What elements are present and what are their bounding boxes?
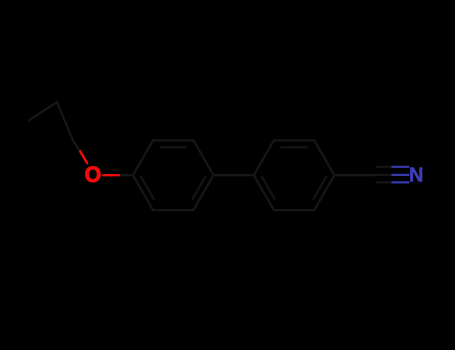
ring 1 inner double bond C2-C3 [161,146,187,148]
nitrile triple bond top line black half [377,166,393,168]
ring 2 inner double bond C2'-C3' [281,146,307,148]
ring 2 benzene edge C6'-C1' [254,175,274,210]
nitrile triple bond top line blue half [392,166,408,168]
ring 2 benzene edge C1'-C2' [254,140,274,175]
ring 2 inner double bond C6'-C1' [262,177,275,199]
ring 1 benzene edge C1-C2 [133,140,153,175]
ring 2 benzene edge C4'-C5' [314,175,334,210]
nitrile triple bond bottom line black half [377,181,393,183]
ring 2 benzene edge C2'-C3' [274,139,314,141]
ring 1 inner double bond C6-C1 [141,177,154,199]
ring 1 benzene edge C3-C4 [193,140,213,175]
svg-text:O: O [85,162,102,188]
nitrile triple bond middle line blue half [392,174,408,176]
ring 1 benzene edge C6-C1 [133,175,153,210]
ring 1 benzene edge C2-C3 [153,139,193,141]
ring 1 inner double bond C4-C5 [193,177,206,199]
nitrile triple bond bottom line blue half [392,181,408,183]
bond CH2-CH2 (alkyl) [57,102,73,140]
bond O-C1 black half [119,174,133,176]
svg-text:N: N [409,164,423,186]
ring 2 benzene edge C5'-C6' [274,209,314,211]
ring 1 benzene edge C5-C6 [153,209,193,211]
ring 1 benzene edge C4-C5 [193,175,213,210]
biphenyl bond C4-C1' [214,174,254,176]
nitrile triple bond middle line black half [375,174,393,176]
bond O-C1 red half [103,174,118,176]
bond CH3-CH2 (alkyl terminal) [29,102,57,120]
bond CH2-O black half [73,140,80,151]
ring 2 inner double bond C4'-C5' [314,177,327,199]
ring 2 benzene edge C3'-C4' [314,140,334,175]
bond CH2-O red half [80,151,87,163]
bond C4'-C(nitrile) [334,174,374,176]
